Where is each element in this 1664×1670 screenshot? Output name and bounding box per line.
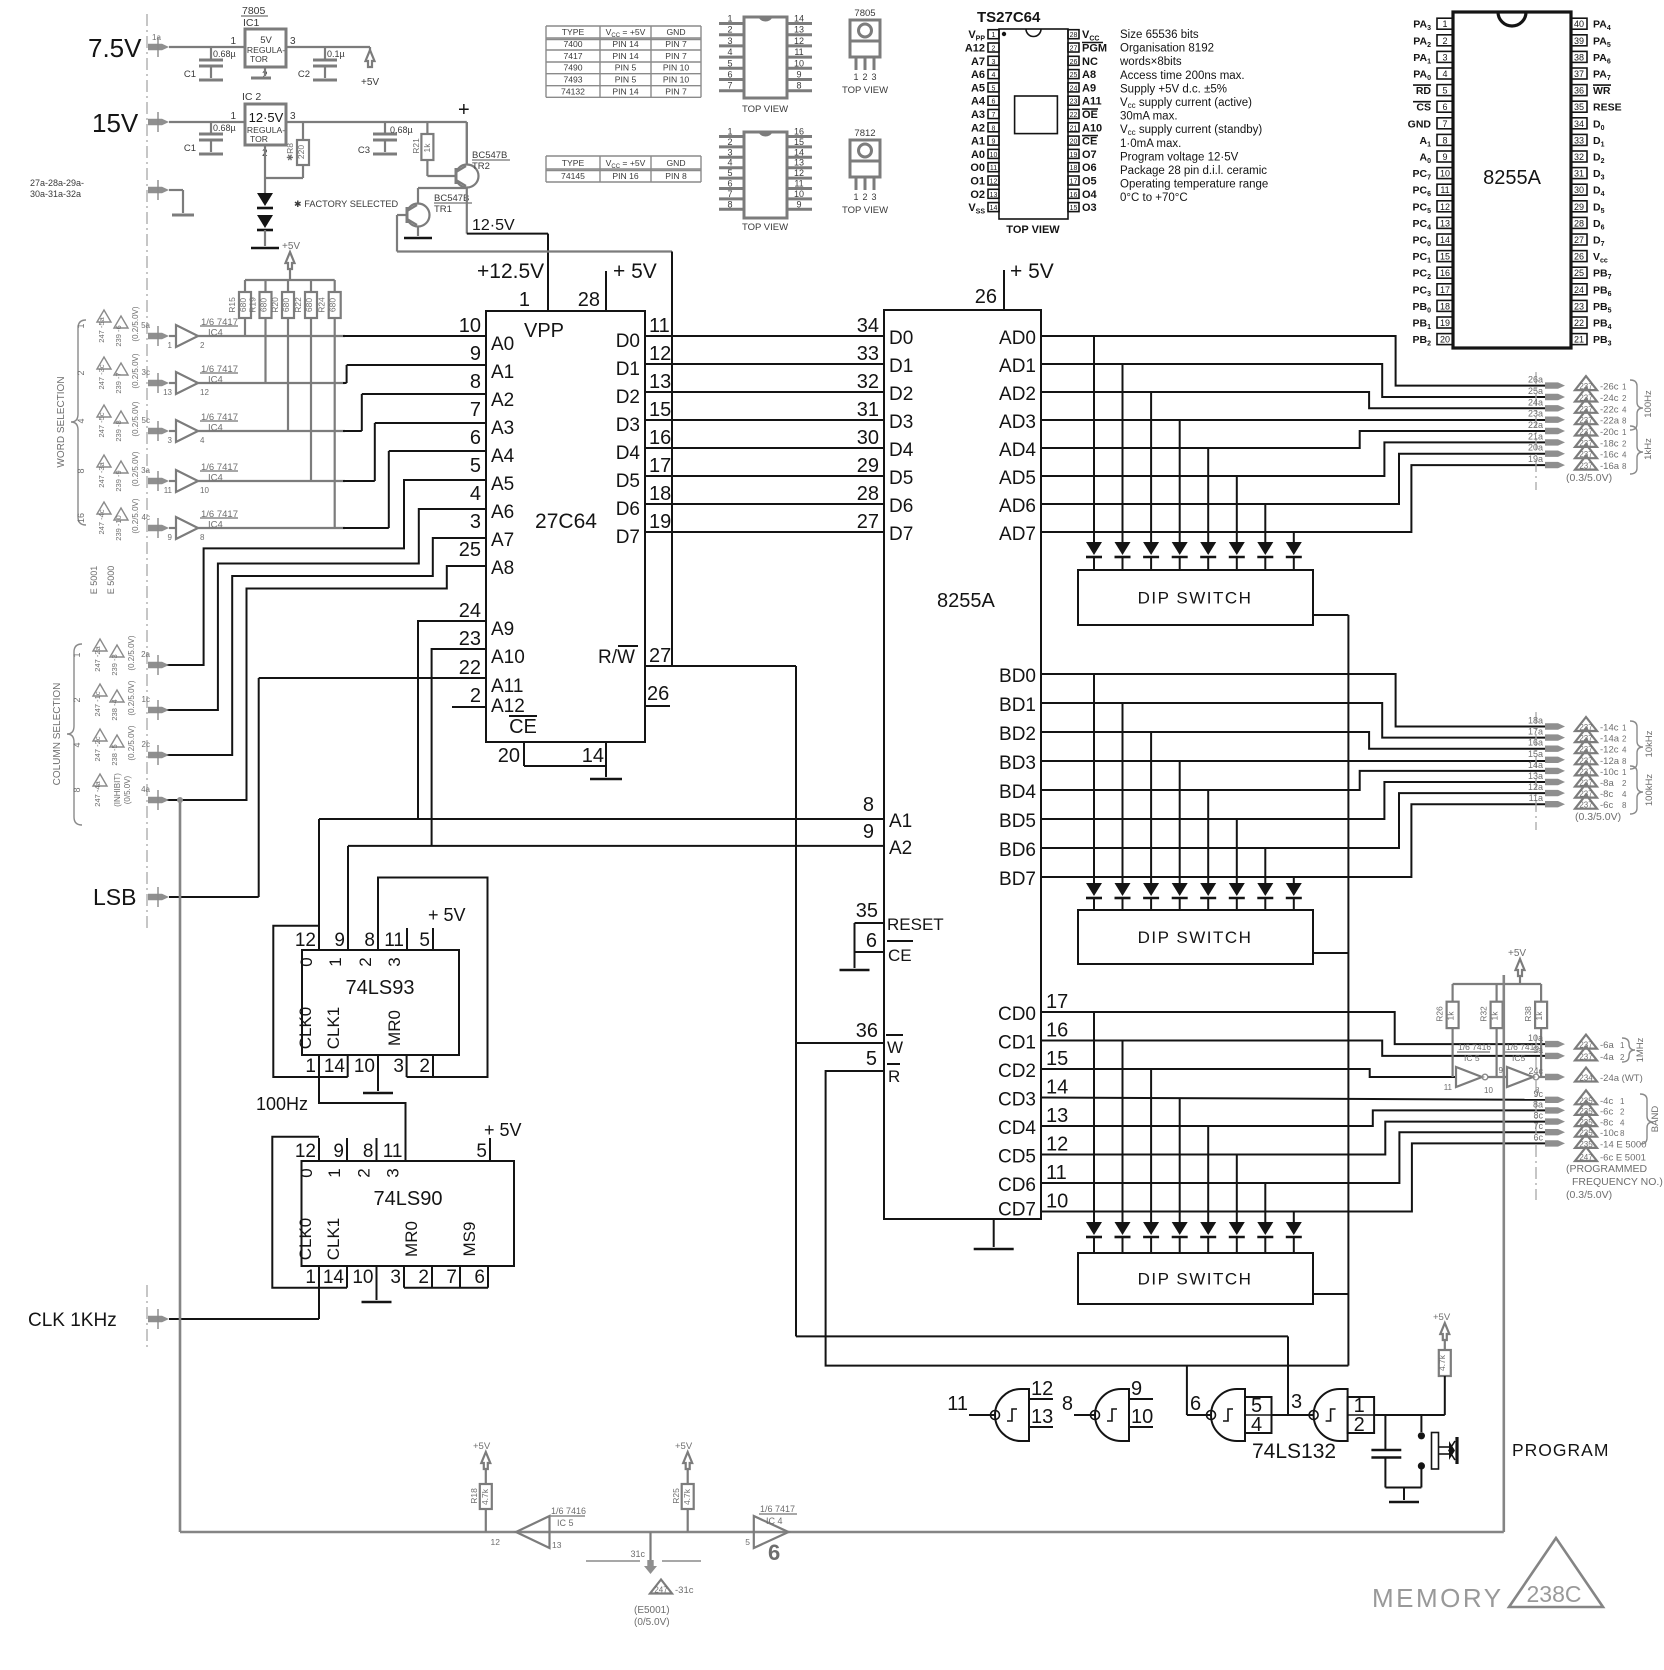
wire tap DIP1 bit 3	[1179, 420, 1181, 542]
svg-text:74132: 74132	[561, 86, 585, 96]
bracket 100Hz	[1630, 380, 1643, 430]
svg-text:8: 8	[1622, 417, 1627, 426]
pin 11 PC6 of 8255A pinout	[1437, 184, 1453, 195]
pin 12 PC5 of 8255A pinout	[1437, 201, 1453, 212]
svg-text:238 -4: 238 -4	[110, 699, 119, 720]
dash-dot boundary right connector group1	[1535, 372, 1537, 490]
svg-text:13: 13	[990, 192, 998, 199]
connector triangle 237 -6a	[1575, 1035, 1597, 1049]
svg-text:74145: 74145	[561, 171, 585, 181]
svg-text:A6: A6	[491, 502, 514, 523]
svg-text:1: 1	[76, 323, 86, 328]
counter 74LS90	[302, 1161, 515, 1266]
wire 12.5V rail from IC2	[286, 121, 467, 123]
svg-text:2: 2	[1442, 36, 1447, 46]
svg-text:7: 7	[727, 189, 732, 199]
svg-text:(0.2/5.0V): (0.2/5.0V)	[131, 451, 140, 486]
wire A10 to 8255A A2 net	[432, 649, 486, 846]
wire D2 bus 27C64 to 8255A	[645, 391, 884, 393]
svg-text:(0.3/5.0V): (0.3/5.0V)	[1566, 472, 1612, 484]
svg-text:30: 30	[1574, 185, 1584, 195]
connector triangle 237 -8a	[1575, 773, 1597, 787]
svg-text:4: 4	[200, 436, 205, 445]
pin 5 A5 of TS27C64	[988, 83, 999, 92]
svg-text:DIP SWITCH: DIP SWITCH	[1138, 928, 1253, 947]
svg-text:16a: 16a	[1528, 738, 1543, 748]
svg-text:27: 27	[1070, 46, 1078, 53]
svg-text:CLK0: CLK0	[296, 1007, 315, 1050]
pin 20 PB2 of 8255A pinout	[1437, 334, 1453, 345]
svg-text:-14c: -14c	[1600, 723, 1619, 734]
svg-text:8: 8	[796, 81, 801, 91]
svg-text:Access time 200ns max.: Access time 200ns max.	[1120, 70, 1245, 82]
svg-text:19: 19	[649, 511, 671, 533]
svg-text:17: 17	[1046, 991, 1068, 1013]
svg-text:13: 13	[1440, 218, 1450, 228]
svg-text:5c: 5c	[142, 416, 150, 425]
package DIP14 top view	[744, 17, 787, 98]
svg-text:20a: 20a	[1528, 443, 1543, 453]
diode DIP1 bit 3	[1172, 542, 1188, 555]
ground of 8255A	[993, 1219, 995, 1247]
svg-text:1k: 1k	[1534, 1011, 1544, 1021]
pin 5 RD of 8255A pinout	[1437, 85, 1453, 96]
resistor R8 220 factory selected	[302, 122, 304, 140]
svg-text:15: 15	[1046, 1048, 1068, 1070]
pin 31 D3 of 8255A pinout	[1571, 168, 1587, 179]
connector pin 14a	[1545, 768, 1565, 774]
svg-text:9: 9	[470, 343, 481, 365]
svg-text:9: 9	[992, 139, 996, 146]
svg-text:28: 28	[578, 289, 600, 311]
svg-text:2: 2	[72, 697, 82, 702]
svg-text:34: 34	[857, 315, 879, 337]
svg-text:CE: CE	[1082, 136, 1097, 148]
svg-text:100Hz: 100Hz	[1643, 390, 1654, 418]
svg-text:15V: 15V	[92, 108, 139, 138]
svg-text:C3: C3	[358, 145, 370, 156]
buffer 7417 IC4 word 2	[176, 372, 198, 394]
connector triangle 237 -22c	[1575, 399, 1597, 413]
svg-text:GND: GND	[1408, 118, 1432, 130]
pin 6 CS of 8255A pinout	[1437, 101, 1453, 112]
svg-text:21a: 21a	[1528, 431, 1543, 441]
svg-text:1a: 1a	[152, 33, 161, 42]
svg-text:239 -6: 239 -6	[114, 325, 123, 346]
svg-text:IC4: IC4	[208, 520, 223, 531]
svg-text:CD3: CD3	[998, 1090, 1036, 1111]
svg-text:0: 0	[297, 957, 316, 966]
svg-text:21: 21	[1574, 335, 1584, 345]
svg-text:-8c: -8c	[1600, 789, 1613, 800]
NAND gate 74LS132 output 8	[1095, 1389, 1129, 1441]
connector triangle 247 -6c E 5001	[1575, 1147, 1597, 1161]
svg-text:A3: A3	[971, 109, 985, 121]
svg-text:239 -9: 239 -9	[114, 470, 123, 491]
svg-text:4: 4	[470, 483, 481, 505]
wire CD6 to connector 7c	[1041, 1132, 1545, 1183]
diode DIP3 bit 3	[1172, 1222, 1188, 1235]
svg-text:31: 31	[1574, 169, 1584, 179]
svg-text:1: 1	[727, 127, 732, 137]
svg-text:3: 3	[470, 511, 481, 533]
wire bottom rail	[180, 1531, 1504, 1534]
pin 19 PB1 of 8255A pinout	[1437, 317, 1453, 328]
connector pin 19a	[1545, 462, 1565, 468]
svg-text:12: 12	[649, 343, 671, 365]
svg-text:30a-31a-32a: 30a-31a-32a	[30, 189, 81, 199]
svg-text:8: 8	[470, 371, 481, 393]
wire buffer2 to connector 24c	[1539, 1076, 1545, 1078]
pin 11 top of 74LS93	[406, 928, 408, 950]
svg-text:BD0: BD0	[999, 666, 1036, 687]
svg-text:PROGRAM: PROGRAM	[1512, 1440, 1609, 1460]
svg-text:-10c: -10c	[1600, 767, 1619, 778]
svg-text:7812: 7812	[854, 128, 875, 139]
svg-text:12·5V: 12·5V	[249, 110, 284, 125]
pin 40 PA4 of 8255A pinout	[1571, 18, 1587, 29]
wire AD6 to connector	[1041, 454, 1545, 504]
svg-text:(0.2/5.0V): (0.2/5.0V)	[131, 306, 140, 341]
resistor R38 1k	[1540, 984, 1542, 1002]
svg-text:680: 680	[238, 298, 248, 312]
pin 11 O0 of TS27C64	[988, 163, 999, 172]
svg-text:9: 9	[168, 533, 173, 542]
svg-text:5: 5	[470, 455, 481, 477]
svg-text:+5V: +5V	[1433, 1312, 1451, 1323]
svg-text:TOP VIEW: TOP VIEW	[742, 104, 788, 115]
svg-text:239 -3: 239 -3	[110, 654, 119, 675]
connector pin 7c	[1545, 1129, 1565, 1135]
svg-text:R25: R25	[671, 1488, 681, 1504]
svg-text:+5V: +5V	[675, 1441, 693, 1452]
diode DIP3 bit 1	[1115, 1222, 1131, 1235]
svg-text:CLK1: CLK1	[324, 1218, 343, 1261]
svg-text:1: 1	[1442, 19, 1447, 29]
svg-text:6: 6	[727, 70, 732, 80]
svg-text:-14a: -14a	[1600, 734, 1620, 745]
svg-text:7493: 7493	[563, 75, 582, 85]
svg-text:IC 2: IC 2	[242, 91, 261, 103]
svg-text:8: 8	[200, 533, 205, 542]
wire buffer1 to buffer2	[1488, 1076, 1507, 1078]
wire DIP2 output	[1313, 952, 1348, 954]
svg-text:11: 11	[794, 179, 803, 189]
svg-text:8: 8	[72, 787, 82, 792]
svg-text:AD7: AD7	[999, 524, 1036, 545]
svg-text:7400: 7400	[563, 39, 582, 49]
svg-text:(0.2/5.0V): (0.2/5.0V)	[127, 635, 136, 670]
svg-text:30mA max.: 30mA max.	[1120, 111, 1178, 123]
svg-text:A2: A2	[491, 390, 514, 411]
svg-text:2c: 2c	[142, 740, 150, 749]
svg-text:12: 12	[295, 930, 316, 951]
svg-text:6: 6	[768, 1540, 780, 1565]
svg-text:A2: A2	[889, 838, 912, 859]
svg-text:3c: 3c	[142, 368, 150, 377]
wire D6 bus 27C64 to 8255A	[645, 503, 884, 505]
svg-text:TOR: TOR	[250, 54, 268, 64]
pin 2 A12 of TS27C64	[988, 43, 999, 52]
pin 33 D1 of 8255A pinout	[1571, 134, 1587, 145]
svg-text:2a: 2a	[141, 650, 150, 659]
svg-text:9c: 9c	[1533, 1089, 1543, 1099]
svg-text:1: 1	[305, 1267, 316, 1288]
svg-text:(0.2/5.0V): (0.2/5.0V)	[127, 725, 136, 760]
svg-text:2: 2	[470, 685, 481, 707]
svg-text:A3: A3	[491, 418, 514, 439]
svg-text:25: 25	[1070, 72, 1078, 79]
wire tap DIP1 bit 7	[1293, 532, 1295, 542]
svg-text:10: 10	[1484, 1086, 1493, 1095]
svg-text:TOR: TOR	[250, 134, 268, 144]
svg-text:0: 0	[297, 1168, 316, 1177]
module border right	[1503, 975, 1506, 1532]
connector pin 16a	[1545, 746, 1565, 752]
connector triangle 234 -24a (WT)	[1575, 1068, 1597, 1082]
svg-text:13a: 13a	[1528, 771, 1543, 781]
svg-text:22: 22	[459, 657, 481, 679]
diode DIP1 bit 0	[1086, 542, 1102, 555]
svg-text:11a: 11a	[1529, 793, 1543, 803]
wire A8 from input 4a	[166, 566, 486, 800]
pin 2 PA2 of 8255A pinout	[1437, 35, 1453, 46]
push button PROGRAM	[1420, 1415, 1422, 1432]
svg-text:3: 3	[290, 111, 296, 122]
svg-text:D6: D6	[616, 499, 640, 520]
wire 7.5V to IC1	[169, 46, 245, 48]
svg-text:A2: A2	[971, 122, 985, 134]
wire 100Hz 74LS93 pin1 to 74LS90 pin 11	[319, 1055, 406, 1161]
svg-text:D4: D4	[616, 443, 641, 464]
svg-text:1: 1	[230, 36, 236, 47]
wire TR1 base vertical to R/W	[671, 252, 673, 667]
svg-text:W: W	[887, 1038, 903, 1057]
svg-text:+ 5V: + 5V	[1010, 260, 1054, 283]
svg-text:1: 1	[72, 652, 82, 657]
svg-text:4: 4	[76, 418, 86, 423]
connector pin 23a	[1545, 417, 1565, 423]
svg-text:BD7: BD7	[999, 869, 1036, 890]
svg-text:9: 9	[333, 1141, 344, 1162]
svg-text:A6: A6	[971, 69, 985, 81]
buffer IC5 7416 on rail	[516, 1516, 550, 1548]
svg-text:AD2: AD2	[999, 384, 1036, 405]
svg-text:E 5001: E 5001	[89, 566, 99, 595]
svg-text:9: 9	[1442, 152, 1447, 162]
svg-text:1: 1	[992, 32, 996, 39]
connector triangle 237 -20c	[1575, 422, 1597, 436]
svg-text:PGM: PGM	[1082, 43, 1107, 55]
svg-text:239 -7: 239 -7	[114, 372, 123, 393]
svg-text:4: 4	[72, 742, 82, 747]
svg-text:18: 18	[1070, 165, 1078, 172]
svg-text:8c: 8c	[1533, 1111, 1543, 1121]
svg-text:R26: R26	[1435, 1006, 1445, 1022]
wire A3 buffer staircase to 27C64	[197, 480, 345, 482]
diode DIP1 bit 7	[1286, 542, 1302, 555]
svg-text:(PROGRAMMED: (PROGRAMMED	[1566, 1163, 1648, 1175]
wire output gate3	[1187, 1414, 1211, 1416]
svg-text:D5: D5	[616, 471, 640, 492]
svg-text:4: 4	[1622, 746, 1627, 755]
svg-text:23: 23	[459, 628, 481, 650]
wire CD1 to connector 9a	[1041, 1041, 1545, 1056]
svg-text:PIN 7: PIN 7	[665, 51, 687, 61]
svg-text:27C64: 27C64	[535, 510, 597, 533]
svg-text:IC1: IC1	[243, 17, 260, 29]
svg-text:TOP VIEW: TOP VIEW	[1006, 224, 1060, 236]
resistor R32 1k	[1495, 984, 1497, 1002]
wire AD2 to connector	[1041, 392, 1545, 408]
wire gate3 output to R net	[1186, 1366, 1188, 1415]
pin 7 A3 of TS27C64	[988, 110, 999, 119]
pin 1 PA3 of 8255A pinout	[1437, 18, 1453, 29]
diode DIP3 bit 2	[1143, 1222, 1159, 1235]
svg-text:13: 13	[649, 371, 671, 393]
svg-text:1: 1	[168, 341, 173, 350]
svg-text:RESET: RESET	[887, 915, 944, 934]
svg-text:1k: 1k	[1446, 1011, 1456, 1021]
svg-text:C1: C1	[184, 69, 196, 80]
svg-text:PIN 5: PIN 5	[615, 63, 637, 73]
svg-text:11: 11	[990, 165, 997, 172]
svg-text:TOP VIEW: TOP VIEW	[742, 222, 788, 233]
wire AD0 to connector	[1041, 336, 1545, 386]
svg-text:238C: 238C	[1527, 1581, 1582, 1607]
connector triangle 237 -8c	[1575, 784, 1597, 798]
resistor R21 1k	[426, 122, 428, 134]
svg-text:Supply +5V d.c. ±5%: Supply +5V d.c. ±5%	[1120, 83, 1227, 95]
svg-text:1kHz: 1kHz	[1643, 438, 1654, 460]
svg-text:14: 14	[990, 205, 998, 212]
svg-text:RESE: RESE	[1593, 102, 1622, 114]
pin 15 PC1 of 8255A pinout	[1437, 251, 1453, 262]
svg-text:NC: NC	[1082, 56, 1098, 68]
pin 12 O1 of TS27C64	[988, 176, 999, 185]
connector triangle 237 -4a	[1575, 1046, 1597, 1060]
NAND gate 74LS132 output 11	[995, 1389, 1029, 1441]
svg-text:15: 15	[1070, 205, 1078, 212]
svg-text:4: 4	[727, 158, 732, 168]
svg-text:1: 1	[1622, 383, 1627, 392]
svg-text:247: 247	[1579, 1153, 1593, 1162]
svg-text:10: 10	[200, 486, 209, 495]
pin 35 RESET of 8255A pinout	[1571, 101, 1587, 112]
svg-text:TS27C64: TS27C64	[977, 9, 1041, 26]
svg-text:19a: 19a	[1528, 454, 1543, 464]
svg-text:37: 37	[1574, 69, 1584, 79]
wire CD4 to connector 8a	[1041, 1110, 1545, 1126]
svg-text:0.68µ: 0.68µ	[213, 49, 236, 59]
wire R/W from 27C64 pin 27	[645, 665, 796, 667]
svg-text:D3: D3	[616, 415, 640, 436]
svg-text:R24: R24	[317, 297, 327, 313]
connector pin 13a	[1545, 779, 1565, 785]
svg-text:5: 5	[419, 930, 430, 951]
svg-text:11: 11	[794, 47, 803, 57]
svg-text:1c: 1c	[142, 695, 150, 704]
svg-text:16: 16	[794, 127, 804, 137]
diode DIP2 bit 3	[1172, 883, 1188, 896]
connector pin 25a	[1545, 394, 1565, 400]
svg-text:1: 1	[1622, 768, 1627, 777]
svg-text:Operating temperature range: Operating temperature range	[1120, 179, 1268, 191]
NAND gate 74LS132 output 3	[1314, 1389, 1348, 1441]
svg-text:13: 13	[794, 158, 804, 168]
buffer IC4 7417 on rail	[754, 1516, 789, 1548]
svg-text:PIN 14: PIN 14	[612, 51, 638, 61]
svg-text:Organisation 8192: Organisation 8192	[1120, 43, 1214, 55]
svg-text:40: 40	[1574, 19, 1584, 29]
svg-text:12: 12	[990, 179, 998, 186]
pin 10 PC7 of 8255A pinout	[1437, 168, 1453, 179]
wire tap DIP1 bit 6	[1264, 504, 1266, 542]
svg-text:12·5V: 12·5V	[472, 217, 515, 234]
peripheral interface 8255A	[884, 310, 1041, 1219]
svg-text:27: 27	[857, 511, 879, 533]
svg-text:4: 4	[992, 72, 996, 79]
svg-text:29: 29	[857, 455, 879, 477]
diode DIP2 bit 0	[1086, 883, 1102, 896]
pin 4 A6 of TS27C64	[988, 70, 999, 79]
svg-text:D2: D2	[889, 384, 913, 405]
connector pin 18a	[1545, 723, 1565, 729]
svg-text:36: 36	[1574, 86, 1584, 96]
svg-text:-20c: -20c	[1600, 427, 1619, 438]
svg-text:A7: A7	[491, 530, 514, 551]
svg-text:13: 13	[552, 1540, 562, 1550]
svg-text:+5V: +5V	[282, 241, 300, 252]
wire BD5 to connector	[1041, 782, 1545, 819]
svg-text:DIP SWITCH: DIP SWITCH	[1138, 1270, 1253, 1289]
svg-text:2: 2	[200, 341, 205, 350]
svg-text:247 -4c: 247 -4c	[97, 509, 106, 534]
svg-text:74LS132: 74LS132	[1252, 1440, 1336, 1463]
svg-text:R21: R21	[411, 138, 421, 154]
svg-text:GND: GND	[666, 158, 685, 168]
svg-text:9: 9	[334, 930, 345, 951]
svg-text:24: 24	[1070, 85, 1078, 92]
diode DIP2 bit 7	[1286, 883, 1302, 896]
svg-text:A5: A5	[971, 82, 985, 94]
svg-text:2: 2	[1622, 735, 1627, 744]
svg-text:A10: A10	[491, 647, 525, 668]
DIP switch DIP2	[1078, 910, 1313, 964]
svg-text:3: 3	[727, 147, 732, 157]
wire tap DIP1 bit 4	[1207, 448, 1209, 542]
svg-text:239 -8: 239 -8	[114, 420, 123, 441]
svg-text:33: 33	[857, 343, 879, 365]
svg-text:✱ FACTORY SELECTED: ✱ FACTORY SELECTED	[294, 199, 399, 209]
svg-text:35: 35	[1574, 102, 1584, 112]
wire CD7 to connector 6c E5000	[1041, 1143, 1545, 1211]
svg-text:BD1: BD1	[999, 695, 1036, 716]
svg-text:13: 13	[1031, 1406, 1053, 1428]
pin 8 top of 74LS93	[377, 928, 379, 950]
connector triangle 237 -22a	[1575, 410, 1597, 424]
svg-text:9: 9	[796, 199, 801, 209]
svg-text:TYPE: TYPE	[562, 158, 585, 168]
pin 18 O6 of TS27C64	[1068, 163, 1079, 172]
pin 9 A1 of TS27C64	[988, 136, 999, 145]
svg-text:R: R	[888, 1067, 900, 1086]
pin 22 PB4 of 8255A pinout	[1571, 317, 1587, 328]
svg-text:(INHIBIT): (INHIBIT)	[113, 773, 122, 807]
svg-text:Package 28 pin d.i.l. ceramic: Package 28 pin d.i.l. ceramic	[1120, 165, 1267, 177]
wire tap DIP1 bit 2	[1150, 392, 1152, 542]
diode DIP2 bit 4	[1200, 883, 1216, 896]
